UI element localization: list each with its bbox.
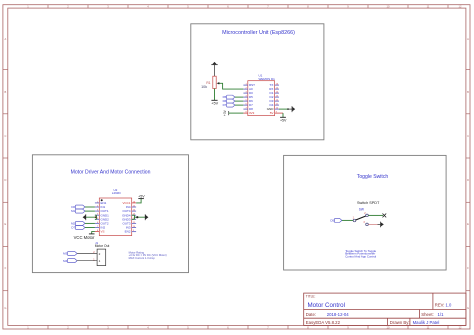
svg-text:VS: VS: [101, 230, 105, 234]
svg-text:Drawn By:: Drawn By:: [390, 320, 410, 325]
wire M1 flag to OUT1: [85, 210, 95, 212]
svg-text:G: G: [467, 306, 469, 310]
svg-text:M3: M3: [63, 252, 67, 256]
U2 right pin numbers: [133, 201, 136, 232]
box Toggle Switch: [284, 155, 447, 270]
svg-text:5V: 5V: [270, 111, 274, 115]
svg-text:D: D: [467, 178, 469, 182]
svg-text:+3V: +3V: [223, 109, 227, 116]
connector J1 body: [97, 249, 106, 266]
svg-text:Motor Control: Motor Control: [308, 302, 345, 309]
box Microcontroller Unit: [191, 24, 324, 140]
R1 wiper arrow: [217, 82, 220, 84]
wire VS to VCC Motor flag: [92, 232, 95, 234]
net flag D6 (to IN1): [71, 205, 85, 209]
note Motor Rating text: [129, 250, 167, 259]
wire GND4/GND3 join (right): [132, 215, 146, 219]
wire GND1/GND2 join: [86, 215, 97, 219]
frame ruler ticks top: [48, 5, 448, 8]
svg-text:E: E: [5, 222, 7, 226]
title block divider Drawn By: [387, 318, 389, 325]
wire D5 flag to switch common: [342, 219, 353, 221]
U1 left pin stubs: [243, 85, 247, 109]
svg-text:+5V: +5V: [138, 195, 145, 199]
+5V power flag right of U1: [280, 116, 286, 118]
svg-text:Microcontroller Unit (Esp8266): Microcontroller Unit (Esp8266): [222, 30, 295, 36]
net flag M4 (to J1 pin1): [63, 259, 77, 263]
frame ruler ticks left: [3, 70, 8, 291]
svg-text:Toggle Switch: Toggle Switch: [357, 174, 389, 180]
wire D7 flag to IN2: [85, 227, 95, 229]
net flag D6: [223, 99, 235, 103]
U1 right pin stubs: [275, 85, 279, 109]
svg-text:MAX Current 1.3 Amp: MAX Current 1.3 Amp: [129, 256, 156, 260]
wire R1 bottom to +5V: [214, 89, 216, 101]
svg-text:SW: SW: [359, 208, 364, 212]
svg-text:2018-12-04: 2018-12-04: [327, 312, 350, 317]
power flag VCC Motor: [89, 233, 95, 235]
wire D6 flag to IN1: [85, 206, 95, 208]
svg-text:Date:: Date:: [306, 312, 316, 317]
net flag D7 (to IN2): [71, 226, 85, 230]
wire D6 flag to U1: [235, 100, 244, 102]
net flag M3 (to J1 pin2): [63, 252, 77, 256]
potentiometer R1 body: [213, 76, 216, 88]
U1 left pin names: [249, 83, 255, 115]
wire D5 flag to U1: [235, 96, 244, 98]
junction dot at wiper: [218, 82, 220, 84]
wire M3 to J1: [77, 253, 97, 255]
junction dot GND: [287, 108, 289, 110]
svg-text:EasyEDA V5.8.22: EasyEDA V5.8.22: [306, 320, 341, 325]
junction dot GND right: [136, 216, 138, 218]
IC U2 L293D body: [99, 198, 131, 236]
svg-text:+5V: +5V: [280, 119, 287, 123]
svg-text:D7: D7: [71, 226, 75, 230]
svg-text:C: C: [467, 134, 469, 138]
svg-text:VCC Motor: VCC Motor: [74, 235, 95, 240]
net flag D5 (to switch): [330, 218, 342, 222]
svg-text:A: A: [467, 37, 469, 41]
wire D7 flag to U1: [235, 104, 244, 106]
U1 right pin names: [267, 83, 275, 115]
wire U1 GND to ground: [279, 108, 289, 110]
wire +3V3 to U1 3V3 pin: [229, 112, 244, 114]
svg-text:10k: 10k: [201, 85, 207, 89]
ground (left of U2, arrow left): [83, 214, 86, 220]
svg-text:Switch SPDT: Switch SPDT: [357, 201, 380, 205]
U2 pin1 dot: [101, 199, 103, 201]
svg-text:Sheet:: Sheet:: [421, 312, 433, 317]
note toggle switch text: [345, 249, 376, 258]
+5V power flag above U2: [138, 198, 144, 200]
title block divider REV: [432, 293, 434, 309]
svg-text:WEMOS D1: WEMOS D1: [259, 77, 276, 81]
svg-text:L293D: L293D: [112, 191, 122, 195]
svg-text:B: B: [467, 90, 469, 94]
ground (right of U2, arrow right): [145, 214, 148, 220]
switch throw contact 3: [366, 223, 369, 226]
stub throw 3: [368, 223, 377, 225]
U2 left pin numbers: [97, 201, 99, 232]
switch SW common contact: [353, 219, 356, 222]
switch lever: [356, 216, 366, 220]
+5V power flag under R1: [211, 99, 217, 101]
switch throw contact 2: [366, 214, 369, 217]
svg-text:F: F: [5, 266, 7, 270]
svg-text:G: G: [4, 306, 6, 310]
svg-text:Motor Driver And Motor Connect: Motor Driver And Motor Connection: [71, 170, 151, 176]
svg-text:EN2: EN2: [125, 230, 131, 234]
svg-text:A: A: [5, 37, 7, 41]
wire wiper to A0: [219, 83, 243, 89]
net flag M2 (to OUT2): [71, 221, 85, 225]
U2 right pin stubs: [132, 202, 136, 204]
U2 left pin names: [101, 201, 110, 234]
svg-text:D7: D7: [223, 103, 227, 107]
svg-text:Motor Out: Motor Out: [95, 244, 110, 248]
svg-text:B: B: [5, 90, 7, 94]
svg-text:M4: M4: [63, 259, 67, 263]
title block divider Sheet: [419, 310, 421, 319]
svg-text:D: D: [4, 178, 6, 182]
svg-text:D5: D5: [330, 219, 334, 223]
wire M2 flag to OUT2: [85, 222, 95, 224]
svg-text:+5V: +5V: [211, 102, 218, 106]
svg-text:1/1: 1/1: [438, 312, 445, 317]
title block divider name: [409, 318, 411, 325]
no-connect cross: [383, 214, 387, 218]
junction dot GND join: [95, 216, 97, 218]
+3V3 power flag (rotated): [223, 109, 229, 116]
wire VCC1 to +5V: [136, 199, 141, 203]
U1 right pin numbers: [276, 84, 279, 114]
net flag D7: [223, 103, 235, 107]
title block row line 2: [304, 317, 466, 319]
frame ruler ticks bottom: [48, 325, 448, 329]
svg-text:C: C: [4, 134, 6, 138]
frame ruler ticks right: [466, 70, 470, 291]
title block outer rect: [304, 293, 466, 325]
IC U1 WEMOS D1 body: [248, 81, 275, 116]
U2 right pin names: [122, 201, 131, 234]
wire throw 2 to no-connect: [368, 214, 383, 216]
svg-text:TITLE:: TITLE:: [306, 295, 316, 299]
svg-text:3V3: 3V3: [249, 111, 255, 115]
title block row line 1: [304, 309, 466, 311]
svg-text:1.0: 1.0: [446, 302, 452, 307]
wire U1 5V down: [282, 113, 284, 117]
wire M4 to J1: [77, 260, 97, 262]
U2 left pin stubs: [95, 203, 99, 228]
svg-text:REV:: REV:: [435, 302, 445, 307]
svg-text:M1: M1: [71, 209, 75, 213]
svg-text:E: E: [467, 222, 469, 226]
U1 left pin numbers: [245, 84, 247, 114]
net flag D5: [223, 95, 235, 99]
ground (switch, arrow right): [378, 222, 384, 228]
ground (top of R1, arrow up): [211, 62, 218, 76]
svg-text:Maulik J Patel: Maulik J Patel: [413, 320, 440, 325]
svg-text:F: F: [467, 266, 469, 270]
box Motor Driver And Motor Connection: [32, 155, 188, 273]
svg-text:Control And App Control: Control And App Control: [345, 254, 376, 258]
ground (right of U1, arrow right): [289, 106, 295, 112]
net flag M1 (to OUT1): [71, 209, 85, 213]
